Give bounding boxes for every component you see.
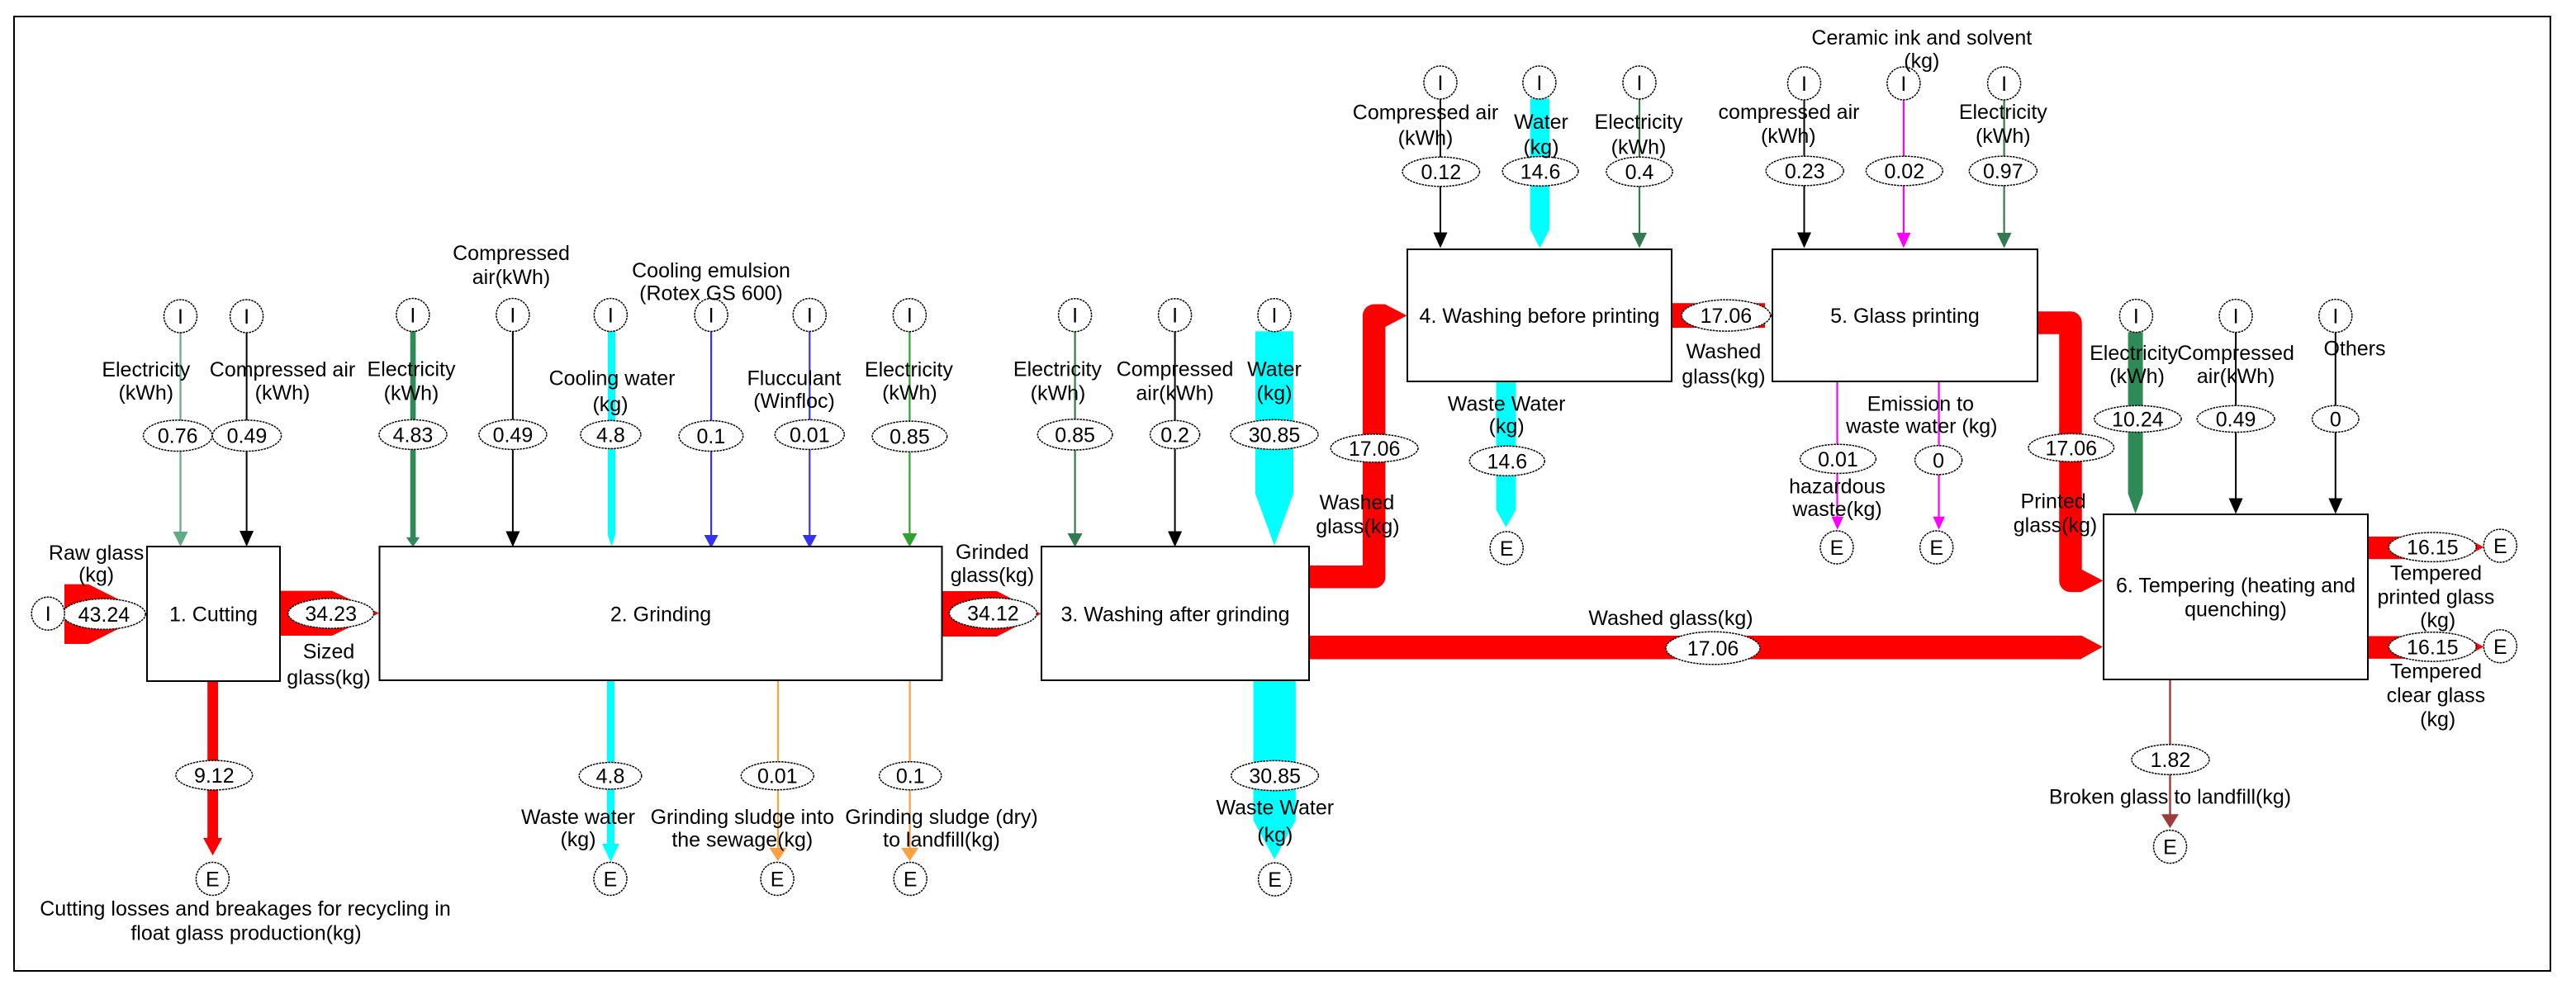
svg-text:0.01: 0.01 bbox=[757, 765, 798, 788]
svg-text:I: I bbox=[1072, 305, 1078, 328]
svg-text:14.6: 14.6 bbox=[1520, 160, 1561, 183]
node E (export) bbox=[1490, 532, 1523, 565]
svg-text:Waste Water: Waste Water bbox=[1448, 393, 1566, 416]
svg-text:E: E bbox=[904, 869, 918, 892]
svg-text:glass(kg): glass(kg) bbox=[2014, 514, 2097, 537]
svg-text:Electricity: Electricity bbox=[2090, 342, 2178, 365]
node E (export) bbox=[2483, 630, 2517, 663]
svg-text:Tempered: Tempered bbox=[2390, 660, 2482, 683]
node value 4.83 bbox=[379, 419, 447, 449]
svg-text:Tempered: Tempered bbox=[2390, 561, 2482, 585]
svg-text:(kg): (kg) bbox=[1489, 415, 1525, 438]
svg-text:0.85: 0.85 bbox=[1055, 424, 1095, 447]
wire: Others input into box6 (0) bbox=[2335, 332, 2336, 500]
svg-text:0.2: 0.2 bbox=[1160, 424, 1189, 447]
node I (import) bbox=[1258, 299, 1291, 332]
svg-text:E: E bbox=[1830, 537, 1844, 560]
svg-text:Others: Others bbox=[2323, 338, 2385, 361]
node I (import) bbox=[695, 299, 728, 332]
svg-text:4. Washing before printing: 4. Washing before printing bbox=[1420, 305, 1660, 328]
node I (import) bbox=[793, 299, 826, 332]
node E (export) bbox=[196, 863, 229, 896]
svg-text:air(kWh): air(kWh) bbox=[1136, 381, 1213, 405]
svg-text:glass(kg): glass(kg) bbox=[287, 666, 370, 689]
svg-text:(Rotex GS 600): (Rotex GS 600) bbox=[639, 282, 783, 305]
svg-text:2. Grinding: 2. Grinding bbox=[610, 603, 711, 627]
svg-text:0.23: 0.23 bbox=[1785, 160, 1825, 183]
svg-text:I: I bbox=[608, 305, 614, 328]
svg-text:printed glass: printed glass bbox=[2378, 585, 2495, 608]
svg-text:Waste water: Waste water bbox=[521, 806, 635, 829]
svg-text:I: I bbox=[1438, 72, 1444, 95]
svg-text:E: E bbox=[1268, 869, 1282, 892]
svg-text:0.02: 0.02 bbox=[1884, 160, 1924, 183]
wire: Grinded glass flow box2 -> box3 (34.12) bbox=[942, 591, 1041, 637]
node value 17.06 bbox=[1331, 434, 1418, 462]
svg-text:30.85: 30.85 bbox=[1249, 424, 1301, 447]
node I (import) bbox=[1623, 66, 1656, 99]
svg-text:0.97: 0.97 bbox=[1983, 160, 2023, 183]
svg-text:E: E bbox=[1500, 537, 1514, 561]
svg-text:waste(kg): waste(kg) bbox=[1791, 498, 1881, 521]
svg-text:I: I bbox=[244, 305, 249, 329]
svg-text:I: I bbox=[1272, 305, 1278, 328]
node value 17.06 bbox=[1666, 632, 1760, 665]
process box 3. Washing after grinding bbox=[1041, 547, 1309, 680]
node value 0.2 bbox=[1150, 420, 1200, 448]
process box 5. Glass printing bbox=[1772, 249, 2038, 381]
svg-text:I: I bbox=[2001, 73, 2007, 96]
svg-text:Water: Water bbox=[1247, 358, 1302, 381]
wire: Electricity input into box2 (4.83) bbox=[410, 329, 416, 537]
node I (import) bbox=[496, 299, 529, 332]
node value 0.85 bbox=[872, 421, 947, 452]
wire: Grinding sludge dry to landfill flow box2 -> E (0.1) bbox=[908, 680, 910, 850]
node value 0.01 bbox=[1800, 444, 1876, 473]
node value 0.1 bbox=[679, 421, 743, 452]
wire: Printed glass flow box5 -> box6 (17.06, elbow down) bbox=[2038, 323, 2081, 580]
svg-text:34.12: 34.12 bbox=[967, 603, 1019, 626]
svg-text:glass(kg): glass(kg) bbox=[1682, 366, 1765, 389]
svg-text:E: E bbox=[771, 869, 785, 892]
svg-text:glass(kg): glass(kg) bbox=[951, 564, 1034, 587]
node value 0.02 bbox=[1866, 156, 1943, 186]
svg-text:0.85: 0.85 bbox=[890, 426, 930, 449]
svg-text:17.06: 17.06 bbox=[2046, 437, 2098, 460]
wire: Compressed air input into box1 (0.49) bbox=[246, 333, 248, 533]
wire: Water input into box4 (14.6) bbox=[1530, 98, 1549, 248]
wire: Waste water flow box2 -> E (4.8) bbox=[607, 680, 614, 844]
svg-text:Compressed air: Compressed air bbox=[1353, 102, 1498, 125]
process box 1. Cutting bbox=[147, 547, 280, 681]
svg-text:Broken glass to landfill(kg): Broken glass to landfill(kg) bbox=[2049, 786, 2291, 809]
wire: Electricity input into box4 (0.4) bbox=[1639, 98, 1640, 234]
node value 17.06 bbox=[2028, 433, 2114, 461]
svg-text:1.82: 1.82 bbox=[2151, 749, 2191, 772]
svg-text:I: I bbox=[1900, 73, 1906, 96]
svg-text:9.12: 9.12 bbox=[194, 764, 235, 788]
node E (export) bbox=[2483, 529, 2517, 562]
svg-text:Electricity: Electricity bbox=[1013, 358, 1102, 381]
wire: Tempered clear glass flow box6 -> E (16.15) bbox=[2368, 637, 2457, 659]
svg-text:Electricity: Electricity bbox=[1595, 111, 1683, 134]
svg-text:I: I bbox=[2332, 305, 2338, 329]
svg-text:43.24: 43.24 bbox=[78, 603, 130, 627]
wire: Ceramic ink and solvent input into box5 (0.02) bbox=[1903, 98, 1905, 234]
node I (import) bbox=[1887, 67, 1920, 100]
svg-text:Washed glass(kg): Washed glass(kg) bbox=[1588, 607, 1753, 630]
svg-text:Emission to: Emission to bbox=[1867, 392, 1974, 415]
node value 0.49 bbox=[2197, 405, 2275, 432]
svg-text:Compressed: Compressed bbox=[2177, 342, 2294, 365]
node I (import) bbox=[594, 299, 627, 332]
node E (export) bbox=[761, 863, 794, 896]
svg-text:(kg): (kg) bbox=[2420, 608, 2455, 632]
wire: Cooling water input into box2 (4.8) bbox=[608, 329, 615, 547]
node I (import) bbox=[396, 299, 429, 332]
svg-text:Washed: Washed bbox=[1686, 340, 1762, 363]
node value 17.06 bbox=[1682, 300, 1771, 331]
svg-text:Flucculant: Flucculant bbox=[747, 367, 842, 390]
svg-text:17.06: 17.06 bbox=[1349, 438, 1401, 461]
svg-text:glass(kg): glass(kg) bbox=[1316, 515, 1399, 538]
svg-text:16.15: 16.15 bbox=[2407, 537, 2459, 560]
svg-text:(kWh): (kWh) bbox=[1031, 381, 1086, 405]
wire: Waste Water flow box4 -> E (14.6) bbox=[1497, 381, 1516, 528]
node value 16.15 bbox=[2389, 632, 2476, 661]
node value 0 bbox=[2313, 405, 2359, 432]
node I (import) bbox=[1788, 67, 1821, 100]
svg-text:Compressed: Compressed bbox=[1117, 358, 1234, 381]
svg-text:(kg): (kg) bbox=[560, 828, 595, 851]
svg-text:6. Tempering (heating and: 6. Tempering (heating and bbox=[2116, 575, 2355, 598]
node value 0 bbox=[1915, 446, 1962, 475]
node value 0.12 bbox=[1402, 157, 1479, 187]
node value 30.85 bbox=[1231, 760, 1319, 790]
svg-text:Electricity: Electricity bbox=[1959, 101, 2047, 124]
node value 16.15 bbox=[2389, 532, 2476, 561]
svg-text:E: E bbox=[1929, 537, 1943, 560]
svg-text:Grinded: Grinded bbox=[956, 541, 1029, 564]
wire: hazardous waste flow box5 -> E (0.01) bbox=[1836, 381, 1838, 518]
svg-text:Compressed: Compressed bbox=[453, 242, 570, 265]
svg-text:0.1: 0.1 bbox=[697, 425, 726, 448]
svg-text:Washed: Washed bbox=[1320, 491, 1395, 514]
svg-text:Ceramic ink and solvent: Ceramic ink and solvent bbox=[1811, 26, 2032, 50]
svg-text:I: I bbox=[45, 603, 51, 626]
node value 0.49 bbox=[212, 420, 281, 452]
svg-text:clear glass: clear glass bbox=[2387, 684, 2486, 707]
wire: Electricity input into box5 (0.97) bbox=[2004, 98, 2005, 234]
svg-text:0.01: 0.01 bbox=[1818, 448, 1858, 471]
svg-text:4.8: 4.8 bbox=[596, 765, 625, 788]
svg-text:E: E bbox=[604, 869, 618, 892]
wire: Raw glass flow I -> box1 bbox=[64, 585, 148, 644]
node value 34.12 bbox=[949, 598, 1037, 628]
svg-text:air(kWh): air(kWh) bbox=[2197, 365, 2275, 388]
wire: Compressed air input into box4 (0.12) bbox=[1440, 99, 1441, 235]
svg-text:I: I bbox=[510, 305, 515, 328]
svg-text:(kWh): (kWh) bbox=[882, 381, 937, 405]
svg-text:compressed air: compressed air bbox=[1719, 101, 1860, 124]
node value 0.97 bbox=[1969, 156, 2037, 186]
svg-text:17.06: 17.06 bbox=[1687, 637, 1739, 660]
svg-text:4.8: 4.8 bbox=[596, 424, 625, 447]
node E (export) bbox=[594, 863, 627, 896]
wire: Water input into box3 (30.85) bbox=[1255, 331, 1293, 546]
svg-text:4.83: 4.83 bbox=[393, 424, 434, 447]
node I (import) bbox=[1159, 299, 1192, 332]
node value 4.8 bbox=[579, 763, 642, 789]
wire: Washed glass flow box3 -> box4 (17.06, elbow up) bbox=[1309, 315, 1385, 577]
svg-text:(kWh): (kWh) bbox=[1976, 125, 2031, 148]
svg-text:3. Washing after grinding: 3. Washing after grinding bbox=[1060, 603, 1289, 627]
node value 0.85 bbox=[1037, 419, 1112, 450]
node value 0.4 bbox=[1606, 157, 1672, 187]
svg-text:I: I bbox=[1637, 72, 1643, 95]
node I (import) bbox=[164, 300, 197, 333]
svg-text:16.15: 16.15 bbox=[2407, 636, 2459, 659]
node E (export) bbox=[1259, 863, 1292, 896]
node I (import) bbox=[2119, 300, 2152, 333]
wire: Washed glass flow box3 -> box6 (17.06, long horizontal) bbox=[1309, 636, 2081, 660]
wire: Electricity input into box1 (0.76) bbox=[179, 333, 181, 534]
svg-text:air(kWh): air(kWh) bbox=[472, 266, 550, 289]
svg-text:5. Glass printing: 5. Glass printing bbox=[1830, 305, 1980, 328]
svg-text:Electricity: Electricity bbox=[865, 358, 953, 381]
svg-text:Waste Water: Waste Water bbox=[1216, 797, 1334, 820]
svg-text:I: I bbox=[410, 305, 415, 328]
svg-text:Water: Water bbox=[1514, 111, 1568, 134]
svg-text:(Winfloc): (Winfloc) bbox=[753, 390, 835, 413]
node value 14.6 bbox=[1502, 157, 1578, 187]
wire: Compressed air input into box2 (0.49) bbox=[512, 330, 514, 534]
svg-text:hazardous: hazardous bbox=[1789, 476, 1886, 499]
svg-text:Printed: Printed bbox=[2020, 490, 2085, 514]
svg-text:0.01: 0.01 bbox=[790, 424, 830, 447]
node I (import) bbox=[893, 299, 926, 332]
svg-text:0.49: 0.49 bbox=[493, 424, 534, 447]
svg-text:quenching): quenching) bbox=[2185, 599, 2287, 622]
svg-text:Electricity: Electricity bbox=[102, 358, 190, 381]
svg-text:14.6: 14.6 bbox=[1487, 450, 1527, 473]
node E (export) bbox=[2154, 831, 2187, 864]
svg-text:30.85: 30.85 bbox=[1249, 765, 1301, 788]
svg-text:10.24: 10.24 bbox=[2112, 408, 2164, 431]
node value 0.01 bbox=[775, 419, 844, 449]
svg-text:Sized: Sized bbox=[303, 641, 355, 664]
wire: Electricity input into box2 right (0.85) bbox=[908, 332, 910, 536]
node value 0.49 bbox=[479, 419, 547, 449]
svg-text:Raw glass: Raw glass bbox=[49, 542, 144, 565]
wire: Grinding sludge into the sewage flow box2 -> E (0.01) bbox=[777, 680, 779, 850]
svg-text:I: I bbox=[2233, 305, 2239, 329]
node value 0.23 bbox=[1766, 156, 1843, 186]
wire: Electricity input into box3 (0.85) bbox=[1074, 332, 1075, 536]
svg-text:(kWh): (kWh) bbox=[255, 381, 311, 405]
wire: Cutting losses flow box1 -> E (9.12) bbox=[207, 680, 218, 838]
node value 0.1 bbox=[880, 762, 942, 790]
node value 4.8 bbox=[581, 420, 641, 448]
svg-text:0.12: 0.12 bbox=[1421, 161, 1461, 184]
wire: Compressed air input into box3 (0.2) bbox=[1174, 332, 1176, 534]
svg-text:I: I bbox=[1536, 72, 1542, 95]
wire: Waste Water flow box3 -> E (30.85) bbox=[1254, 680, 1296, 859]
svg-text:(kg): (kg) bbox=[1904, 50, 1939, 73]
svg-text:Cutting losses and breakages f: Cutting losses and breakages for recycli… bbox=[40, 897, 451, 921]
svg-text:Grinding sludge (dry): Grinding sludge (dry) bbox=[845, 806, 1037, 829]
wire: Broken glass to landfill flow box6 -> E (1.82) bbox=[2169, 679, 2170, 816]
svg-text:0.49: 0.49 bbox=[2216, 408, 2256, 431]
wire: Flucculant input into box2 (0.01) bbox=[809, 330, 810, 537]
svg-text:Cooling water: Cooling water bbox=[549, 367, 676, 390]
svg-text:(kWh): (kWh) bbox=[1398, 127, 1454, 150]
svg-text:E: E bbox=[2493, 636, 2507, 659]
wire: Washed glass flow box4 -> box5 (17.06) bbox=[1672, 303, 1765, 328]
svg-text:(kWh): (kWh) bbox=[1611, 136, 1667, 159]
svg-text:Compressed air: Compressed air bbox=[210, 358, 355, 381]
node I (import) bbox=[2219, 300, 2252, 333]
svg-text:0.1: 0.1 bbox=[896, 765, 925, 788]
svg-text:0.49: 0.49 bbox=[227, 425, 268, 448]
svg-text:E: E bbox=[206, 869, 220, 892]
node value 9.12 bbox=[176, 760, 253, 790]
svg-text:I: I bbox=[1801, 73, 1807, 96]
svg-text:I: I bbox=[2133, 305, 2139, 329]
svg-text:I: I bbox=[709, 305, 714, 328]
svg-text:Grinding sludge into: Grinding sludge into bbox=[651, 806, 834, 829]
svg-text:E: E bbox=[2493, 535, 2507, 558]
wire: Sized glass flow box1 -> box2 (34.23) bbox=[280, 591, 379, 636]
node I (import) bbox=[1988, 67, 2021, 100]
node I (import) bbox=[31, 597, 64, 630]
wire: compressed air input into box5 (0.23) bbox=[1804, 98, 1805, 234]
svg-text:17.06: 17.06 bbox=[1701, 305, 1753, 328]
svg-text:0: 0 bbox=[1933, 449, 1944, 472]
svg-text:(kWh): (kWh) bbox=[2109, 365, 2165, 388]
svg-text:(kWh): (kWh) bbox=[384, 381, 439, 405]
svg-text:(kg): (kg) bbox=[1256, 381, 1292, 405]
svg-text:(kg): (kg) bbox=[1257, 824, 1293, 847]
process box 4. Washing before printing bbox=[1407, 249, 1672, 381]
svg-text:the sewage(kg): the sewage(kg) bbox=[671, 829, 813, 852]
svg-text:I: I bbox=[1172, 305, 1178, 328]
svg-text:(kg): (kg) bbox=[1523, 136, 1558, 159]
node value 0.01 bbox=[741, 762, 814, 790]
svg-text:(kWh): (kWh) bbox=[1761, 125, 1816, 148]
svg-text:to landfill(kg): to landfill(kg) bbox=[883, 829, 1000, 852]
node I (import) bbox=[1523, 66, 1556, 99]
process box 6. Tempering bbox=[2104, 514, 2368, 679]
node I (import) bbox=[1059, 299, 1092, 332]
node value 0.76 bbox=[144, 420, 212, 452]
svg-text:(kWh): (kWh) bbox=[118, 381, 173, 405]
svg-text:I: I bbox=[907, 305, 913, 328]
svg-text:float glass production(kg): float glass production(kg) bbox=[130, 921, 361, 944]
node value 34.23 bbox=[288, 599, 374, 628]
wire: Compressed air input into box6 (0.49) bbox=[2235, 332, 2237, 500]
process box 2. Grinding bbox=[380, 547, 942, 680]
svg-text:waste water (kg): waste water (kg) bbox=[1845, 414, 1997, 438]
svg-text:(kg): (kg) bbox=[2420, 708, 2455, 731]
svg-text:0: 0 bbox=[2330, 408, 2341, 431]
svg-text:I: I bbox=[807, 305, 813, 328]
svg-text:(kg): (kg) bbox=[592, 393, 628, 416]
wire: Tempered printed glass flow box6 -> E (16.15) bbox=[2368, 537, 2457, 559]
node I (import) bbox=[1424, 66, 1457, 99]
svg-text:(kg): (kg) bbox=[78, 564, 114, 587]
svg-text:Electricity: Electricity bbox=[368, 358, 456, 381]
node value 43.24 bbox=[63, 599, 146, 629]
node E (export) bbox=[1920, 531, 1953, 564]
svg-text:1. Cutting: 1. Cutting bbox=[169, 603, 258, 627]
svg-text:Cooling emulsion: Cooling emulsion bbox=[632, 259, 790, 282]
svg-text:I: I bbox=[178, 305, 183, 329]
svg-text:0.4: 0.4 bbox=[1625, 161, 1654, 184]
node E (export) bbox=[1820, 531, 1853, 564]
node value 1.82 bbox=[2132, 745, 2209, 775]
wire: Electricity input into box6 (10.24) bbox=[2128, 332, 2143, 514]
svg-text:E: E bbox=[2163, 836, 2177, 859]
node I (import) bbox=[230, 300, 263, 333]
node E (export) bbox=[894, 863, 927, 896]
wire: Emission to waste water flow box5 -> E (0) bbox=[1938, 381, 1940, 518]
node I (import) bbox=[2319, 300, 2352, 333]
svg-text:34.23: 34.23 bbox=[305, 603, 357, 626]
node value 14.6 bbox=[1469, 446, 1544, 476]
wire: Cooling emulsion input into box2 (0.1) bbox=[710, 330, 712, 537]
node value 30.85 bbox=[1231, 419, 1318, 449]
svg-text:0.76: 0.76 bbox=[158, 425, 198, 448]
node value 10.24 bbox=[2094, 405, 2181, 432]
